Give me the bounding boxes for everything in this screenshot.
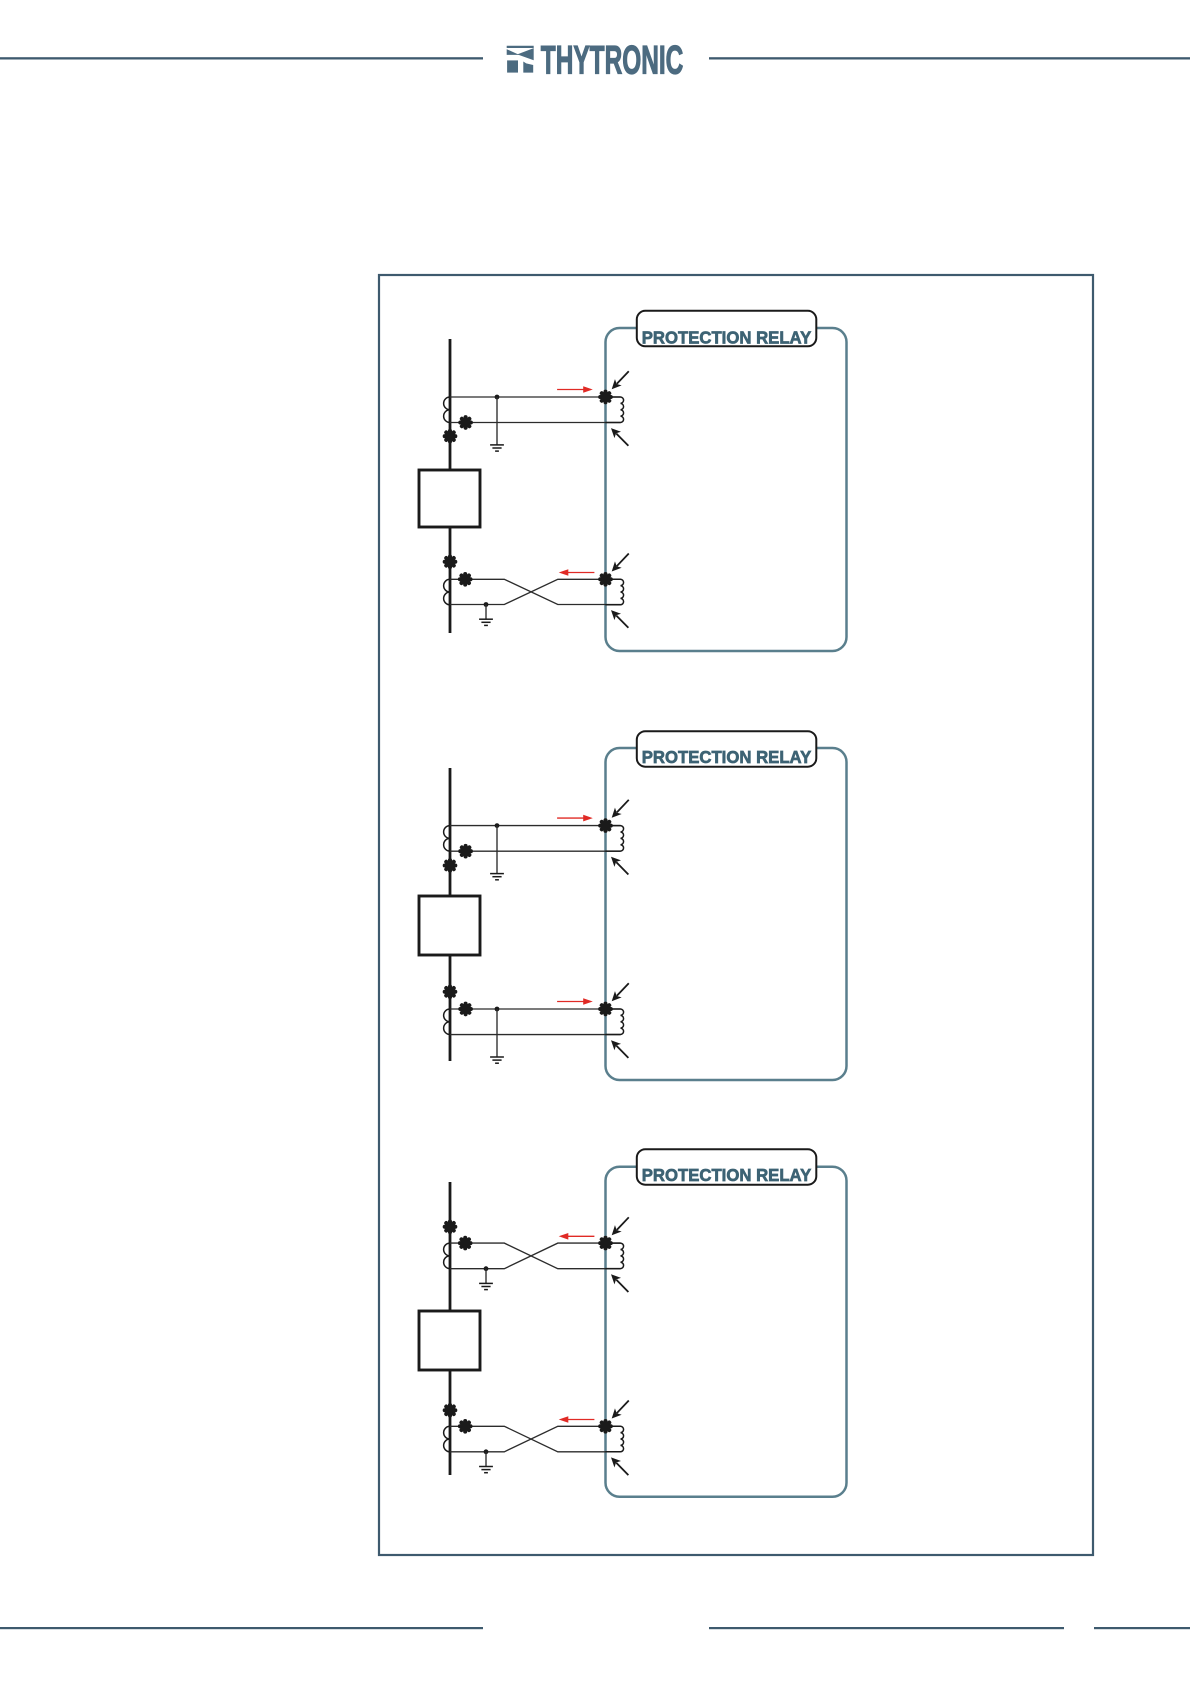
terminal pointer arrow lower (diagram 3, CT1) (608, 1271, 632, 1295)
earth wire (diagram 3, CT2) (485, 1452, 487, 1467)
ground (diagram 3, CT2) (479, 1467, 493, 1473)
current direction arrow (diagram 3, CT2) (559, 1416, 595, 1423)
CT1 secondary return wire (bottom, diagram 2) (450, 850, 621, 852)
CT2 secondary wire crossing up (diagram 3) (450, 1426, 621, 1452)
CT2 winding bumps (diagram 2) (444, 1009, 450, 1035)
current direction arrow (diagram 2, CT2) (557, 998, 593, 1005)
CT2 secondary polarity mark (diagram 3) (460, 1421, 471, 1432)
svg-text:PROTECTION RELAY: PROTECTION RELAY (642, 327, 812, 347)
earth junction node (diagram 3, CT1) (484, 1266, 489, 1271)
terminal pointer arrow upper (diagram 3, CT2) (608, 1397, 632, 1421)
relay input winding (diagram 2, CT1) (606, 826, 624, 852)
relay terminal polarity mark (diagram 1, CT1) (600, 392, 611, 403)
relay input winding (diagram 1, CT2) (606, 579, 624, 605)
footer rule middle (709, 1627, 1064, 1629)
protection relay box U1 (606, 328, 847, 651)
protection relay label frame U1 (637, 311, 817, 347)
terminal pointer arrow lower (diagram 3, CT2) (608, 1454, 632, 1478)
busbar segment upper (diagram 2) (449, 768, 452, 896)
busbar polarity mark (diagram 3, CT2) (445, 1405, 456, 1416)
relay input winding (diagram 2, CT2) (606, 1009, 624, 1035)
terminal pointer arrow upper (diagram 2, CT2) (608, 980, 632, 1004)
protection relay label frame U3 (637, 1149, 817, 1185)
transformer block (diagram 3) (419, 1311, 480, 1370)
relay terminal polarity mark (diagram 3, CT1) (600, 1238, 611, 1249)
ground (diagram 2, CT1) (490, 874, 504, 880)
relay terminal polarity mark (diagram 3, CT2) (600, 1421, 611, 1432)
CT1 secondary polarity mark (diagram 3) (460, 1238, 471, 1249)
terminal pointer arrow lower (diagram 1, CT2) (608, 607, 632, 631)
terminal pointer arrow upper (diagram 3, CT1) (608, 1214, 632, 1238)
current direction arrow (diagram 1, CT1) (557, 386, 593, 393)
busbar segment lower (diagram 3) (449, 1370, 452, 1475)
busbar polarity mark (diagram 2, CT1) (445, 860, 456, 871)
CT1 secondary return wire (bottom, diagram 1) (450, 422, 621, 424)
earth wire (diagram 1, CT1) (496, 397, 498, 445)
relay terminal polarity mark (diagram 2, CT1) (600, 820, 611, 831)
svg-text:PROTECTION RELAY: PROTECTION RELAY (642, 747, 812, 767)
relay terminal polarity mark (diagram 1, CT2) (600, 574, 611, 585)
terminal pointer arrow upper (diagram 1, CT1) (608, 368, 632, 392)
CT1 secondary polarity mark (diagram 1) (460, 417, 471, 428)
CT1 secondary wire (top, diagram 1) (450, 396, 621, 398)
busbar polarity mark (diagram 1, CT1) (445, 431, 456, 442)
CT2 winding bumps (diagram 3) (444, 1426, 450, 1452)
busbar polarity mark (diagram 1, CT2) (445, 557, 456, 568)
footer rule left (0, 1627, 483, 1629)
earth wire (diagram 3, CT1) (485, 1269, 487, 1284)
CT2 secondary wire crossing down (diagram 3) (450, 1426, 621, 1452)
figure frame (379, 275, 1093, 1555)
current direction arrow (diagram 3, CT1) (559, 1233, 595, 1240)
CT1 winding bumps (diagram 3) (444, 1243, 450, 1269)
header rule left (0, 57, 483, 59)
terminal pointer arrow lower (diagram 1, CT1) (608, 425, 632, 449)
CT1 secondary wire crossing down (diagram 3) (450, 1243, 621, 1269)
svg-text:PROTECTION RELAY: PROTECTION RELAY (642, 1165, 812, 1185)
ground (diagram 2, CT2) (490, 1057, 504, 1063)
busbar segment lower (diagram 2) (449, 955, 452, 1061)
terminal pointer arrow upper (diagram 2, CT1) (608, 797, 632, 821)
CT2 secondary return wire (bottom, diagram 2) (450, 1034, 621, 1036)
svg-text:THYTRONIC: THYTRONIC (541, 39, 684, 83)
CT2 secondary wire crossing down (diagram 1) (450, 579, 621, 604)
protection relay label frame U2 (637, 731, 817, 767)
terminal pointer arrow upper (diagram 1, CT2) (608, 550, 632, 574)
busbar polarity mark (diagram 3, CT1) (445, 1222, 456, 1233)
earth junction node (diagram 2, CT2) (495, 1007, 500, 1012)
CT2 secondary polarity mark (diagram 1) (460, 574, 471, 585)
busbar segment upper (diagram 1) (449, 339, 452, 470)
terminal pointer arrow lower (diagram 2, CT1) (608, 854, 632, 878)
ground (diagram 1, CT1) (490, 445, 504, 451)
terminal pointer arrow lower (diagram 2, CT2) (608, 1037, 632, 1061)
footer rule right (1094, 1627, 1190, 1629)
earth junction node (diagram 3, CT2) (484, 1449, 489, 1454)
CT1 secondary wire crossing up (diagram 3) (450, 1243, 621, 1269)
earth junction node (diagram 2, CT1) (495, 823, 500, 828)
CT1 secondary polarity mark (diagram 2) (460, 846, 471, 857)
CT2 secondary polarity mark (diagram 2) (460, 1004, 471, 1015)
protection relay box U2 (606, 748, 847, 1080)
earth wire (diagram 2, CT2) (496, 1009, 498, 1057)
earth junction node (diagram 1, CT2) (484, 602, 489, 607)
CT2 secondary wire (top, diagram 2) (450, 1008, 621, 1010)
earth wire (diagram 2, CT1) (496, 826, 498, 874)
current direction arrow (diagram 1, CT2) (559, 569, 595, 576)
relay input winding (diagram 3, CT2) (606, 1426, 624, 1452)
CT1 secondary wire (top, diagram 2) (450, 825, 621, 827)
protection relay box U3 (606, 1167, 847, 1497)
busbar segment upper (diagram 3) (449, 1182, 452, 1311)
header rule right (709, 57, 1190, 59)
CT2 winding bumps (diagram 1) (444, 579, 450, 605)
transformer block (diagram 1) (419, 470, 480, 527)
relay input winding (diagram 1, CT1) (606, 397, 624, 423)
CT1 winding bumps (diagram 2) (444, 826, 450, 852)
CT2 secondary wire crossing up (diagram 1) (450, 579, 621, 604)
relay input winding (diagram 3, CT1) (606, 1243, 624, 1269)
transformer block (diagram 2) (419, 896, 480, 955)
CT1 winding bumps (diagram 1) (444, 397, 450, 423)
ground (diagram 3, CT1) (479, 1283, 493, 1289)
Thytronic logo mark (507, 46, 534, 73)
ground (diagram 1, CT2) (479, 619, 493, 625)
earth junction node (diagram 1, CT1) (495, 395, 500, 400)
current direction arrow (diagram 2, CT1) (557, 815, 593, 822)
relay terminal polarity mark (diagram 2, CT2) (600, 1004, 611, 1015)
busbar segment lower (diagram 1) (449, 527, 452, 633)
busbar polarity mark (diagram 2, CT2) (445, 987, 456, 998)
earth wire (diagram 1, CT2) (485, 605, 487, 620)
